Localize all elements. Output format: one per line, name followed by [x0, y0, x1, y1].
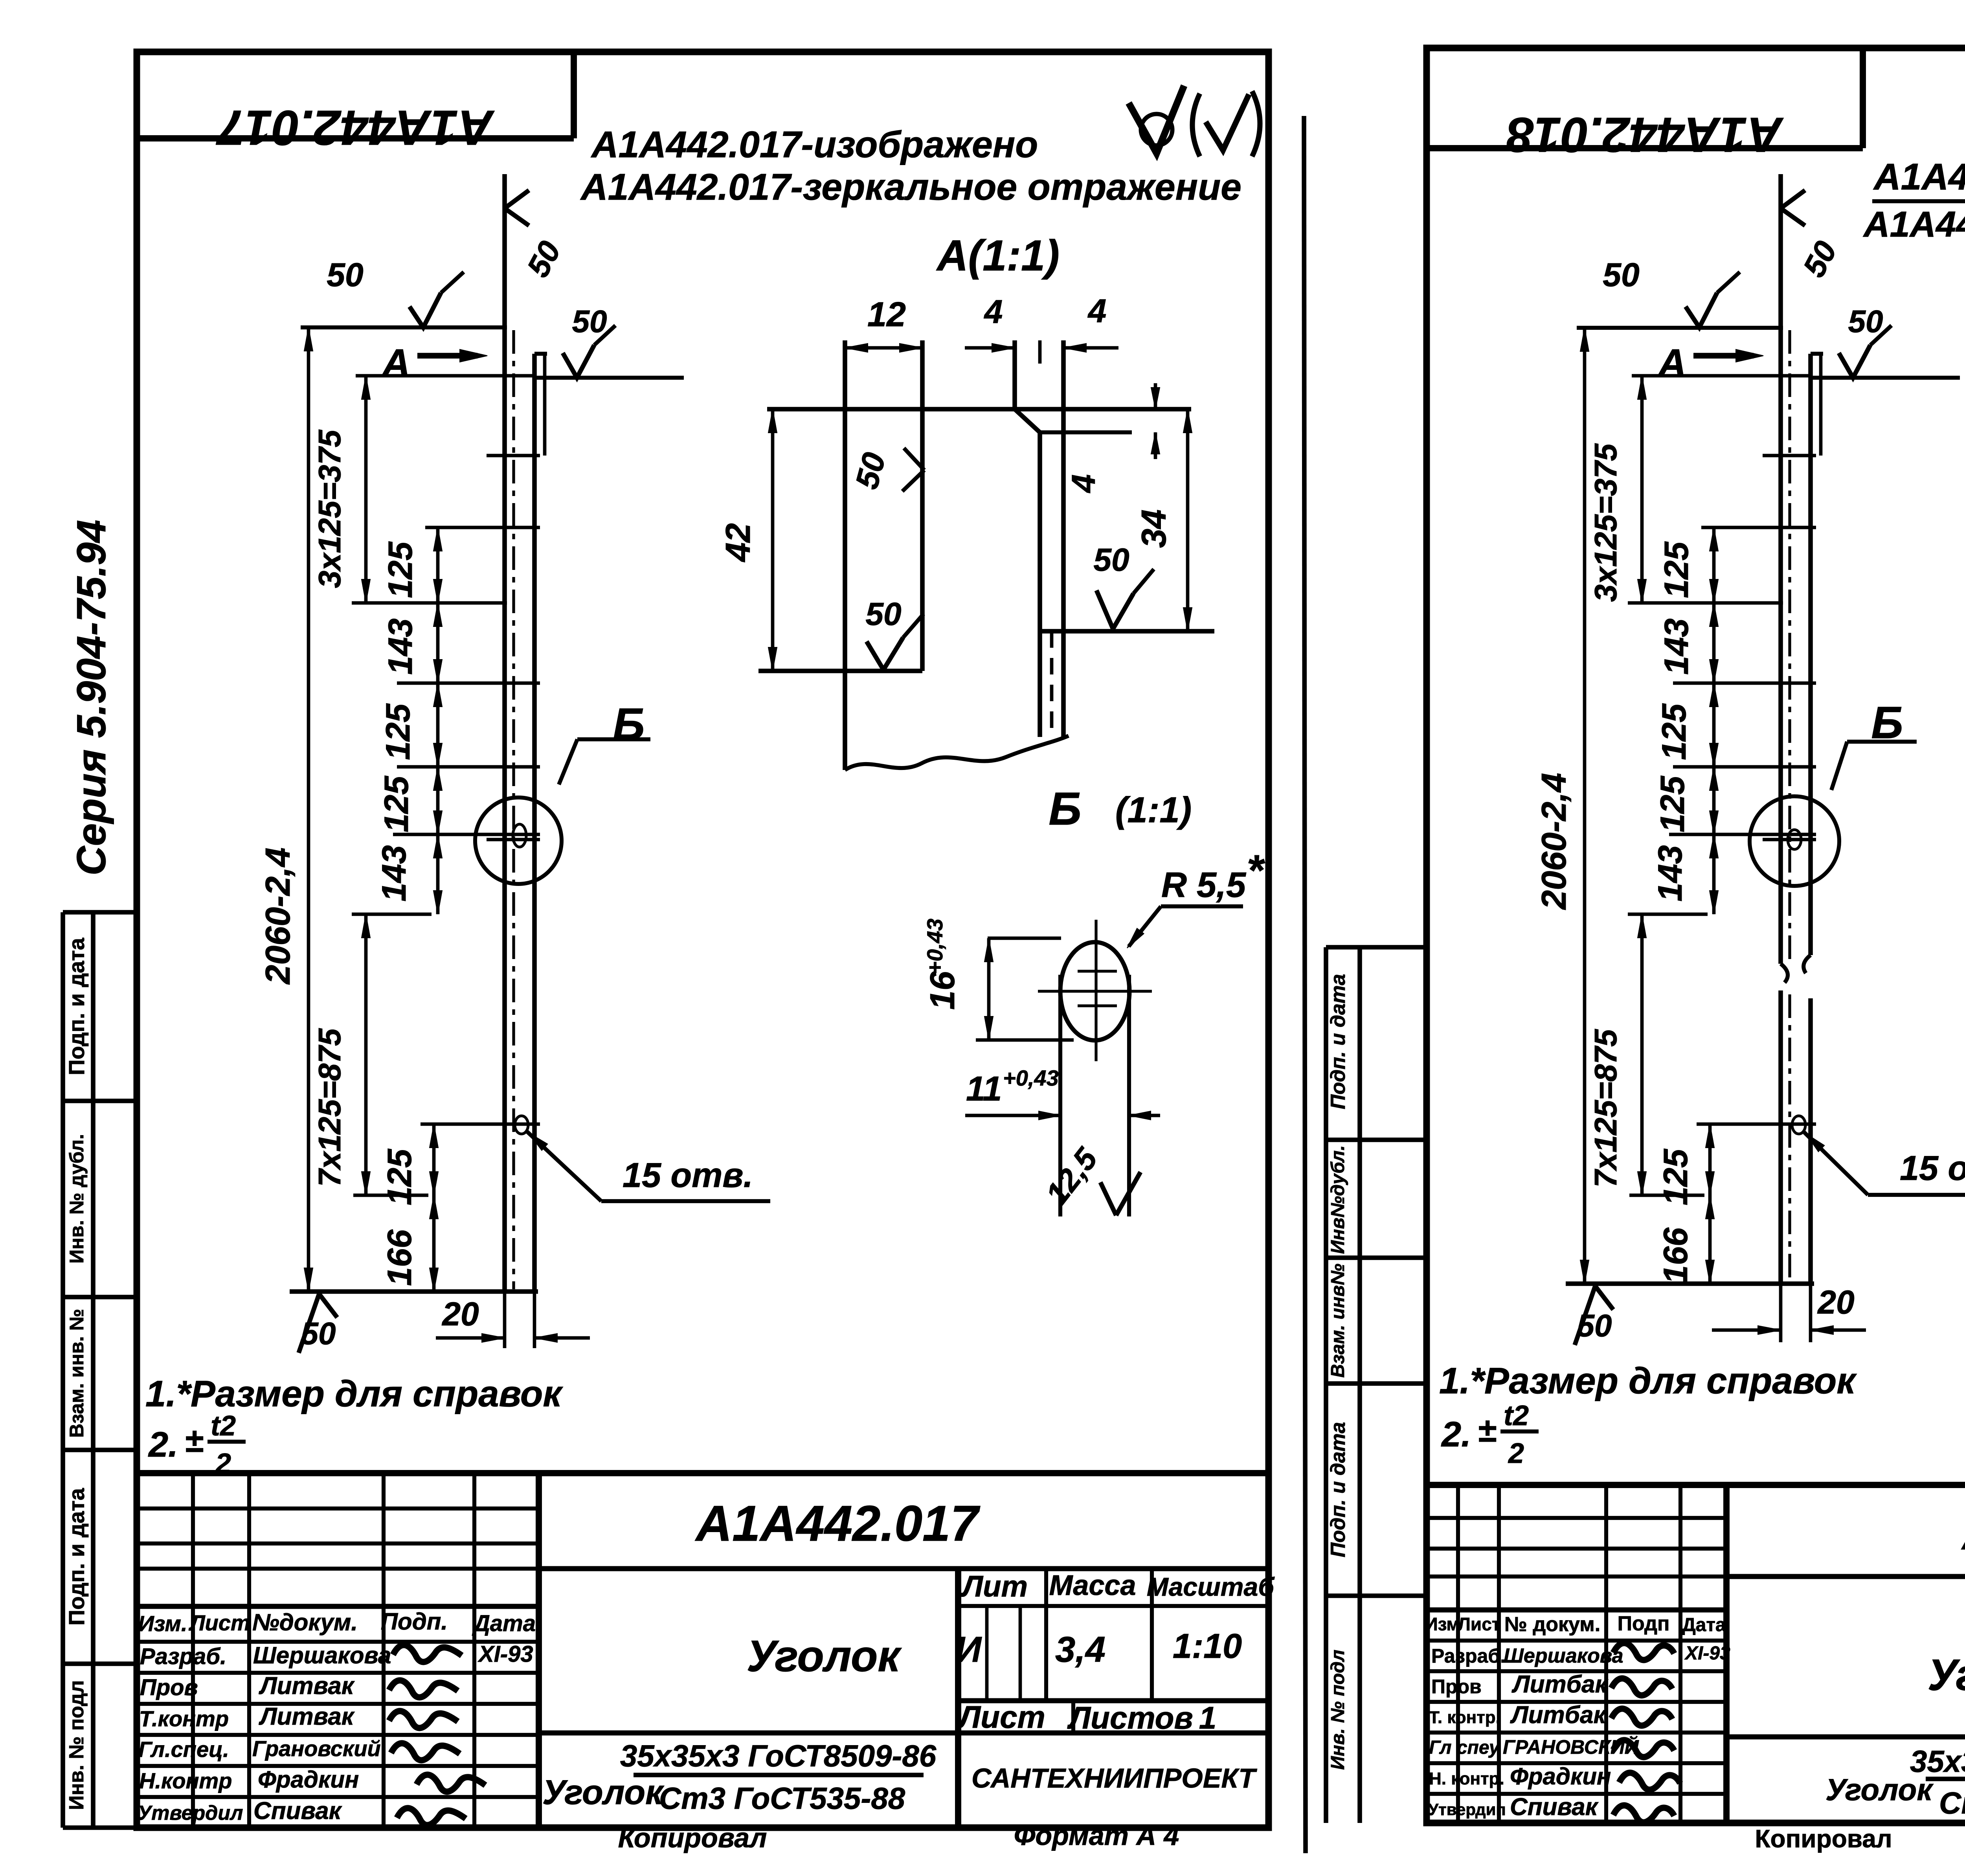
svg-text:Гл.спец.: Гл.спец.	[138, 1737, 229, 1762]
extension line y1951	[397, 765, 540, 769]
svg-text:125: 125	[1658, 541, 1695, 598]
right extension lines	[1632, 374, 1810, 378]
detail A right plate upper-left edge	[1012, 340, 1017, 409]
svg-text:Изм.: Изм.	[138, 1611, 187, 1636]
callout 15 otv leader	[527, 1131, 601, 1201]
svg-text:A1A442.017: A1A442.017	[695, 1496, 981, 1552]
svg-text:Литвак: Литвак	[259, 1703, 355, 1730]
svg-text:±: ±	[185, 1422, 203, 1459]
detail A right plate outer edge	[1061, 340, 1066, 737]
svg-text:Подп. и дата: Подп. и дата	[64, 937, 89, 1075]
svg-text:Т. контр.: Т. контр.	[1429, 1708, 1500, 1727]
svg-text:±: ±	[1478, 1411, 1496, 1449]
svg-text:Фрадкин: Фрадкин	[258, 1766, 359, 1793]
svg-text:Шершакова: Шершакова	[253, 1642, 391, 1668]
svg-text:143: 143	[375, 845, 413, 902]
right margin verticals	[1324, 947, 1328, 1823]
svg-text:50: 50	[301, 1316, 336, 1351]
extension line y3041	[353, 1194, 428, 1197]
right tb horizontals left part	[1427, 1516, 1726, 1520]
svg-text:50: 50	[1577, 1308, 1612, 1343]
svg-text:34: 34	[1134, 509, 1173, 548]
svg-text:125: 125	[381, 1148, 419, 1205]
detail A right plate inner edge	[1038, 432, 1042, 737]
svg-text:Б: Б	[1871, 698, 1903, 748]
dim 2060-2,4 vertical line	[307, 327, 310, 1292]
svg-text:3х125=375: 3х125=375	[1588, 443, 1623, 602]
svg-text:42: 42	[718, 523, 757, 562]
svg-text:Подп. и дата: Подп. и дата	[64, 1488, 89, 1625]
detail B tick upper	[1078, 970, 1117, 972]
extension line y2326	[352, 913, 432, 916]
left bar top-right short edge	[534, 352, 547, 356]
svg-text:7х125=875: 7х125=875	[312, 1028, 347, 1187]
svg-text:А1А442.018-01-зеркальнае отраж: А1А442.018-01-зеркальнае отражение	[1863, 204, 1965, 244]
svg-text:Фрадкин: Фрадкин	[1510, 1763, 1611, 1790]
svg-text:№ докум.: № докум.	[1504, 1613, 1600, 1636]
scan divider line between sheets	[1304, 116, 1306, 1853]
svg-text:Взам. инв№: Взам. инв№	[1328, 1264, 1348, 1378]
svg-text:А1А442.017-зеркальное отражени: А1А442.017-зеркальное отражение	[580, 166, 1241, 208]
extension line y1738	[397, 682, 540, 685]
right bar top extension line	[1577, 326, 1783, 330]
detail B vertical centerline	[1095, 920, 1097, 1061]
right designation cell bottom	[1726, 1574, 1965, 1579]
svg-text:35х35х3 ГоСТ8509-86: 35х35х3 ГоСТ8509-86	[620, 1738, 937, 1773]
svg-text:125: 125	[1654, 775, 1691, 832]
dim 125 (4)	[432, 1124, 436, 1195]
svg-text:2.: 2.	[1441, 1415, 1471, 1454]
svg-text:САНТЕХНИИПРОЕКТ: САНТЕХНИИПРОЕКТ	[971, 1763, 1257, 1793]
right signatures	[1613, 1643, 1674, 1660]
svg-text:50: 50	[1603, 256, 1639, 293]
detail A inner step line	[1040, 430, 1132, 434]
left surface finish symbol	[1129, 86, 1184, 153]
right bar second edge line	[1819, 354, 1823, 456]
svg-text:125: 125	[379, 703, 417, 760]
right callout 15 otv	[1804, 1132, 1868, 1195]
dim 143 (2)	[436, 834, 440, 914]
svg-text:166: 166	[1657, 1227, 1695, 1284]
svg-text:166: 166	[381, 1229, 419, 1286]
svg-text:20: 20	[441, 1295, 479, 1332]
svg-text:50: 50	[1093, 542, 1129, 578]
right sheet frame	[1427, 48, 1965, 1823]
right stamp box	[1860, 48, 1866, 148]
svg-text:143: 143	[1658, 618, 1695, 675]
svg-text:143: 143	[1651, 845, 1689, 902]
svg-text:R 5,5: R 5,5	[1161, 865, 1247, 905]
leader to label B	[559, 739, 577, 785]
svg-text:Шершакова: Шершакова	[1504, 1644, 1623, 1667]
svg-text:125: 125	[378, 775, 415, 832]
svg-text:+0,43: +0,43	[922, 919, 947, 974]
svg-text:А1А442.017-изображено: А1А442.017-изображено	[591, 124, 1038, 165]
right bar left edge upper	[1778, 174, 1783, 964]
svg-text:Спивак: Спивак	[253, 1797, 342, 1825]
svg-text:3х125=375: 3х125=375	[312, 429, 347, 588]
right surface 50 bottom-left	[1575, 1286, 1595, 1345]
right bar centerline dash-dot lower	[1788, 994, 1791, 1281]
svg-text:3,4: 3,4	[1055, 1630, 1106, 1670]
svg-text:Литбак: Литбак	[1511, 1671, 1608, 1698]
dim 3x125=375	[364, 376, 368, 603]
svg-text:1: 1	[1199, 1700, 1217, 1735]
dim 125 (1)	[436, 527, 440, 603]
svg-text:1:10: 1:10	[1173, 1626, 1242, 1665]
left bar right edge	[532, 354, 537, 1292]
dim 4 mid right	[1130, 408, 1165, 411]
lit header bottom	[958, 1604, 1269, 1608]
svg-text:Инв. № подл: Инв. № подл	[1328, 1650, 1348, 1770]
svg-text:ХI-93: ХI-93	[477, 1641, 533, 1667]
svg-text:143: 143	[382, 618, 419, 675]
right surface mark 50 right of bar	[1811, 376, 1960, 380]
extension line y2123	[393, 833, 540, 836]
svg-text:50: 50	[572, 304, 607, 339]
svg-text:16: 16	[923, 971, 962, 1010]
right bar bottom baseline	[1566, 1281, 1814, 1286]
ticks across bar	[487, 454, 540, 458]
svg-text:4: 4	[1087, 292, 1107, 329]
right tb verticals	[1456, 1485, 1460, 1823]
svg-text:Пров: Пров	[1431, 1676, 1482, 1698]
surface mark 50 on top extension (rotated)	[505, 190, 529, 208]
margin horizontal dividers	[63, 910, 137, 915]
svg-text:Литбак: Литбак	[1510, 1701, 1607, 1729]
svg-text:Серия 5.904-75.94: Серия 5.904-75.94	[69, 520, 114, 875]
left bar second edge line	[543, 354, 547, 456]
dim 12	[845, 346, 922, 350]
left bar top extension line	[301, 325, 507, 329]
svg-text:Ст 3 ГоСТ535-88: Ст 3 ГоСТ535-88	[1939, 1786, 1965, 1820]
svg-text:Копировал: Копировал	[1755, 1825, 1892, 1853]
svg-text:А: А	[381, 341, 410, 385]
left stamp box	[571, 52, 577, 138]
svg-text:Подп. и дата: Подп. и дата	[1327, 1422, 1350, 1557]
dim 34	[1186, 409, 1190, 631]
detail A top line	[767, 407, 1191, 412]
svg-text:50: 50	[865, 596, 901, 632]
svg-text:Утвердип: Утвердип	[1428, 1800, 1506, 1819]
hole ellipse 15otv	[515, 1116, 528, 1134]
svg-text:Взам. инв. №: Взам. инв. №	[66, 1309, 88, 1438]
svg-text:Разраб.: Разраб.	[1431, 1645, 1506, 1667]
svg-text:И: И	[955, 1630, 982, 1670]
right dims chain	[1712, 527, 1716, 603]
slot tangent edge right	[1127, 975, 1131, 1216]
detail A break wavy line	[845, 736, 1069, 770]
svg-text:Гл спеу: Гл спеу	[1429, 1737, 1500, 1758]
svg-text:A1A442.018: A1A442.018	[1507, 107, 1784, 162]
dim 143 (1)	[436, 603, 440, 683]
svg-text:Формат А 4: Формат А 4	[1014, 1820, 1179, 1851]
svg-text:7х125=875: 7х125=875	[1588, 1029, 1623, 1187]
right dim 3x125=375	[1640, 376, 1644, 603]
right margin horizontals	[1326, 945, 1427, 950]
svg-text:Листов: Листов	[1067, 1700, 1193, 1735]
right hole in circle B	[1788, 830, 1801, 849]
svg-text:12: 12	[867, 295, 906, 334]
right dim 20 bottom	[1779, 1284, 1783, 1342]
svg-text:Инв№дубл.: Инв№дубл.	[1328, 1145, 1348, 1254]
svg-text:Дата: Дата	[1682, 1615, 1726, 1635]
detail A plate left edge	[843, 340, 847, 770]
svg-text:Уголок: Уголок	[1928, 1650, 1965, 1700]
svg-text:Б: Б	[1049, 783, 1082, 835]
dim 16+0.43	[988, 937, 1061, 940]
extension line y2860 hole row	[421, 1123, 540, 1126]
svg-text:Утвердил: Утвердил	[138, 1802, 243, 1825]
svg-text:35х35х3 ГОСТ8509-86: 35х35х3 ГОСТ8509-86	[1910, 1744, 1965, 1779]
right bar centerline dash-dot upper	[1788, 330, 1791, 961]
svg-text:Лист: Лист	[188, 1610, 250, 1635]
svg-text:Копировал: Копировал	[618, 1823, 767, 1853]
svg-text:Н. контр.: Н. контр.	[1429, 1769, 1504, 1788]
detail B tick lower	[1078, 1004, 1117, 1007]
right dim 2060-2,4	[1583, 328, 1587, 1284]
right ticks across bar	[1763, 454, 1816, 458]
svg-text:2060-2,4: 2060-2,4	[258, 847, 297, 985]
svg-text:ХI-93: ХI-93	[1684, 1643, 1730, 1664]
detail circle B on bar	[475, 797, 562, 884]
svg-text:Пров: Пров	[140, 1675, 198, 1700]
hole ellipse in circle B	[513, 824, 526, 847]
extension line y1342	[425, 526, 540, 529]
svg-text:Подп: Подп	[1618, 1612, 1670, 1635]
surface mark 50 right of bar	[535, 376, 684, 380]
right bar left edge lower	[1778, 990, 1783, 1284]
dim 4 second	[1063, 346, 1118, 350]
svg-text:Ст3 ГоСТ535-88: Ст3 ГоСТ535-88	[659, 1781, 905, 1815]
svg-text:№докум.: №докум.	[252, 1609, 358, 1635]
detail B horizontal centerline	[1038, 990, 1152, 992]
right detail circle B	[1750, 796, 1839, 886]
svg-text:Т.контр: Т.контр	[139, 1706, 229, 1731]
svg-text:125: 125	[1655, 703, 1693, 760]
svg-text:Литвак: Литвак	[259, 1672, 355, 1700]
svg-text:11: 11	[966, 1069, 1002, 1108]
signatures left sheet	[393, 1645, 462, 1662]
right bar right edge lower	[1808, 998, 1813, 1284]
svg-text:20: 20	[1817, 1284, 1854, 1321]
svg-text:Лит: Лит	[960, 1570, 1028, 1603]
svg-text:50: 50	[1848, 304, 1883, 339]
dim 4 first	[965, 346, 1015, 350]
svg-text:Б: Б	[613, 699, 645, 750]
title block verticals	[191, 1473, 195, 1828]
right list row bottom	[1726, 1734, 1965, 1739]
svg-text:2.: 2.	[148, 1425, 178, 1464]
svg-text:Подп. и дата: Подп. и дата	[1327, 974, 1350, 1109]
svg-text:*: *	[1247, 846, 1265, 895]
svg-text:15 отв.: 15 отв.	[1900, 1148, 1965, 1187]
svg-text:Изм: Изм	[1425, 1614, 1460, 1634]
left bar centerline dash-dot	[512, 330, 515, 1289]
left bar bottom baseline	[290, 1289, 538, 1294]
svg-text:1.*Размер для справок: 1.*Размер для справок	[145, 1373, 563, 1414]
right hole 15otv	[1792, 1116, 1805, 1134]
svg-text:Масштаб: Масштаб	[1147, 1572, 1275, 1601]
dim 20 bottom	[503, 1292, 507, 1348]
right bar break hooks	[1781, 964, 1788, 983]
right surface mark 50 on top extension rotated	[1781, 190, 1805, 208]
svg-text:(1:1): (1:1)	[1115, 790, 1192, 830]
svg-text:4: 4	[1065, 474, 1102, 494]
svg-text:125: 125	[1657, 1148, 1695, 1205]
svg-text:1.*Размер для справок: 1.*Размер для справок	[1439, 1360, 1857, 1401]
svg-text:+0,43: +0,43	[1003, 1066, 1059, 1090]
svg-text:Разраб.: Разраб.	[140, 1644, 226, 1669]
detail B slot ellipse	[1060, 942, 1129, 1040]
right bar right edge upper	[1808, 354, 1813, 955]
title block horizontals left part	[137, 1507, 539, 1510]
left bar left edge	[502, 174, 507, 1292]
svg-text:2: 2	[1508, 1438, 1524, 1469]
dim 166	[432, 1195, 436, 1292]
svg-text:Инв. № подл: Инв. № подл	[65, 1680, 88, 1810]
margin vertical lines	[61, 912, 65, 1828]
svg-text:4: 4	[984, 293, 1003, 330]
dim 42	[771, 409, 775, 671]
svg-text:А1А442.018 - изображено: А1А442.018 - изображено	[1873, 156, 1965, 198]
svg-text:t2: t2	[1504, 1400, 1529, 1431]
dim 7x125=875	[364, 914, 368, 1195]
left sheet frame	[137, 52, 1269, 1828]
svg-text:Масса: Масса	[1049, 1570, 1136, 1601]
svg-text:t2: t2	[211, 1410, 236, 1442]
title block designation cell bottom	[539, 1566, 1269, 1571]
svg-text:125: 125	[382, 541, 419, 598]
svg-text:Подп.: Подп.	[381, 1608, 448, 1635]
slot tangent edge left	[1058, 975, 1062, 1216]
list row bottom	[539, 1730, 1269, 1735]
svg-text:Грановский: Грановский	[252, 1736, 381, 1761]
dim 125 (2)	[436, 683, 440, 767]
title block top line	[137, 1470, 1269, 1476]
extension line y1534	[352, 601, 507, 605]
extension line y956	[356, 374, 534, 378]
detail A plate right edge	[920, 340, 925, 671]
right bar top-right short edge	[1811, 352, 1823, 356]
svg-text:А(1:1): А(1:1)	[936, 232, 1060, 280]
svg-text:Лист: Лист	[1458, 1614, 1501, 1634]
right leader to label B	[1831, 742, 1847, 790]
detail A hidden dashed line	[1050, 631, 1054, 737]
svg-text:Инв. № дубл.: Инв. № дубл.	[66, 1134, 88, 1264]
svg-text:2060-2,4: 2060-2,4	[1534, 773, 1573, 910]
svg-text:Н.контр: Н.контр	[139, 1768, 232, 1793]
detail A plate bottom line	[758, 669, 922, 673]
svg-text:Спивак: Спивак	[1510, 1793, 1599, 1821]
right title block top line	[1427, 1482, 1965, 1488]
dim 125 (3)	[436, 767, 440, 834]
svg-text:Уголок: Уголок	[747, 1632, 902, 1681]
svg-text:A1A442.017: A1A442.017	[216, 100, 495, 155]
detail A bend diagonal	[1015, 409, 1040, 432]
surface mark 50 bottom-left	[299, 1294, 319, 1353]
svg-text:Дата: Дата	[472, 1611, 536, 1636]
svg-text:15 отв.: 15 отв.	[623, 1156, 753, 1194]
svg-text:Лист: Лист	[957, 1700, 1045, 1735]
svg-text:50: 50	[327, 256, 363, 293]
svg-text:Уголок: Уголок	[542, 1773, 665, 1812]
svg-text:А: А	[1657, 341, 1686, 385]
lit row bottom	[958, 1698, 1269, 1703]
detail A right bottom line	[1038, 629, 1214, 634]
